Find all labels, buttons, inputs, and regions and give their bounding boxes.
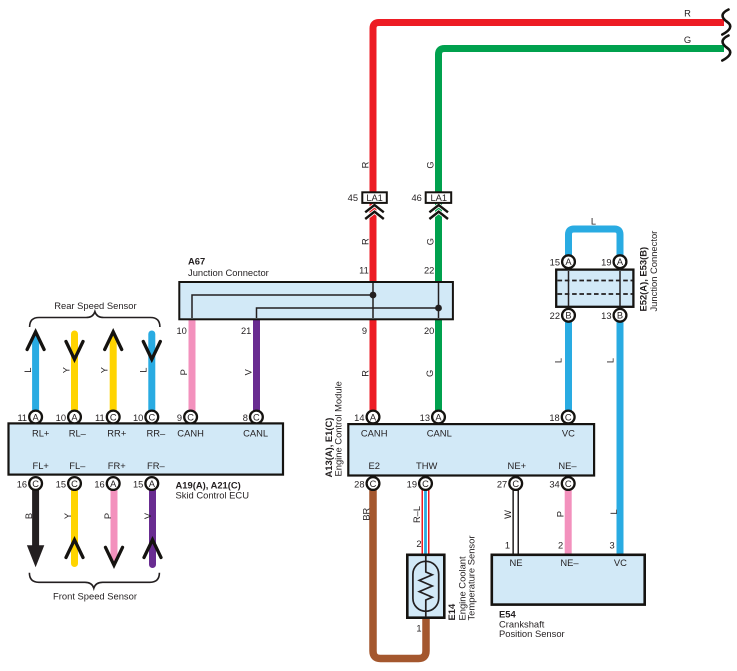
svg-text:G: G [426,161,436,168]
svg-text:CANL: CANL [427,428,452,439]
svg-text:G: G [425,370,435,377]
svg-text:FL+: FL+ [32,460,49,471]
svg-text:11: 11 [95,413,105,423]
svg-text:15: 15 [550,257,560,267]
svg-text:A: A [435,412,442,422]
svg-text:RR–: RR– [147,428,167,439]
svg-text:15: 15 [56,479,66,489]
svg-text:27: 27 [497,479,507,489]
svg-text:NE–: NE– [558,460,577,471]
svg-text:A: A [617,257,624,267]
svg-text:L: L [138,368,148,373]
svg-text:G: G [684,34,691,45]
svg-text:L: L [609,509,619,514]
svg-text:11: 11 [17,413,27,423]
svg-text:10: 10 [56,413,66,423]
svg-text:G: G [426,238,436,245]
svg-text:CANL: CANL [243,428,268,439]
svg-text:3: 3 [610,541,615,551]
svg-text:C: C [370,479,377,489]
svg-text:20: 20 [424,326,434,336]
svg-text:C: C [148,412,155,422]
svg-text:A67: A67 [188,255,205,266]
svg-text:B: B [617,311,623,321]
svg-text:THW: THW [416,460,437,471]
svg-text:C: C [565,412,572,422]
svg-text:R: R [361,370,371,377]
svg-text:LA1: LA1 [431,193,448,203]
svg-text:Junction Connector: Junction Connector [188,267,269,278]
svg-text:A: A [71,412,78,422]
svg-text:L: L [553,358,563,363]
svg-text:L: L [606,358,616,363]
svg-text:16: 16 [94,479,104,489]
svg-text:Y: Y [62,367,72,373]
svg-text:R–L: R–L [412,506,422,523]
svg-text:Y: Y [63,513,73,519]
svg-text:R: R [684,8,691,19]
svg-text:R: R [361,161,371,168]
svg-text:11: 11 [359,266,369,276]
svg-text:A: A [370,412,377,422]
svg-text:Junction Connector: Junction Connector [648,231,659,312]
svg-text:13: 13 [601,311,611,321]
svg-text:Front Speed Sensor: Front Speed Sensor [53,591,137,602]
svg-text:P: P [555,511,565,517]
svg-text:14: 14 [354,413,364,423]
svg-text:E2: E2 [368,460,379,471]
svg-text:22: 22 [550,311,560,321]
svg-text:A: A [110,479,117,489]
svg-text:Engine Control Module: Engine Control Module [333,381,344,476]
svg-text:9: 9 [362,326,367,336]
svg-text:C: C [110,412,117,422]
svg-text:19: 19 [601,257,611,267]
svg-text:BR: BR [362,507,372,520]
svg-text:A: A [565,257,572,267]
svg-text:Temperature Sensor: Temperature Sensor [466,536,477,621]
svg-text:C: C [187,412,194,422]
svg-text:45: 45 [348,193,358,203]
svg-text:RL–: RL– [69,428,87,439]
svg-text:1: 1 [416,624,421,634]
svg-text:L: L [591,217,596,227]
svg-text:L: L [23,368,33,373]
svg-text:Rear Speed Sensor: Rear Speed Sensor [54,300,136,311]
svg-text:15: 15 [133,479,143,489]
svg-text:46: 46 [411,193,421,203]
svg-text:FR+: FR+ [108,460,126,471]
svg-text:C: C [32,479,39,489]
svg-text:22: 22 [424,266,434,276]
svg-text:B: B [565,311,571,321]
svg-text:C: C [253,412,260,422]
svg-text:2: 2 [558,541,563,551]
svg-text:21: 21 [241,326,251,336]
svg-text:C: C [512,479,519,489]
svg-text:VC: VC [614,557,627,568]
svg-text:18: 18 [549,413,559,423]
svg-text:FL–: FL– [69,460,86,471]
svg-text:1: 1 [505,541,510,551]
svg-text:RR+: RR+ [107,428,127,439]
svg-text:P: P [103,513,113,519]
svg-text:Skid Control ECU: Skid Control ECU [176,489,250,500]
svg-text:CANH: CANH [177,428,204,439]
svg-text:NE: NE [509,557,522,568]
svg-text:28: 28 [354,479,364,489]
svg-text:FR–: FR– [147,460,165,471]
svg-text:P: P [179,369,189,375]
svg-text:NE–: NE– [560,557,579,568]
svg-text:34: 34 [549,479,559,489]
svg-text:C: C [71,479,78,489]
svg-text:C: C [422,479,429,489]
svg-text:19: 19 [407,479,417,489]
svg-text:RL+: RL+ [32,428,50,439]
svg-text:8: 8 [243,413,248,423]
svg-text:LA1: LA1 [366,193,383,203]
svg-text:10: 10 [176,326,186,336]
svg-text:2: 2 [416,539,421,549]
svg-text:A: A [149,479,156,489]
svg-text:Y: Y [99,367,109,373]
svg-text:VC: VC [562,428,575,439]
svg-text:A: A [32,412,39,422]
svg-text:13: 13 [420,413,430,423]
svg-text:9: 9 [177,413,182,423]
svg-text:NE+: NE+ [508,460,527,471]
svg-text:Position Sensor: Position Sensor [499,628,565,639]
svg-text:CANH: CANH [361,428,388,439]
svg-text:16: 16 [17,479,27,489]
svg-text:R: R [361,238,371,245]
svg-text:W: W [503,510,513,519]
svg-text:B: B [24,513,34,519]
svg-text:C: C [565,479,572,489]
svg-text:10: 10 [133,413,143,423]
svg-text:V: V [143,512,153,519]
svg-text:V: V [243,368,253,375]
